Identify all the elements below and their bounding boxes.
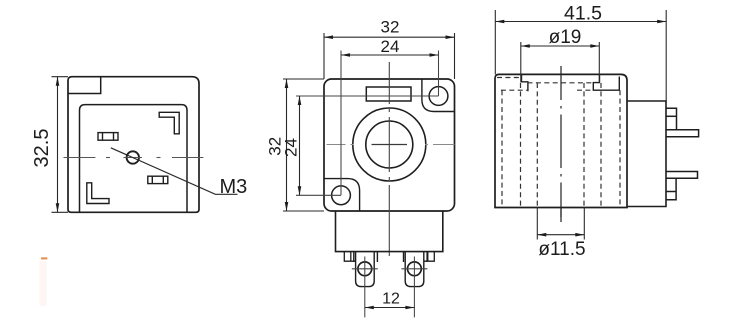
central gland outer circle [353, 108, 426, 181]
top dim extension lines [324, 33, 455, 79]
corner key mark top-right [159, 112, 179, 134]
right pin hole [408, 262, 422, 276]
svg-text:24: 24 [381, 37, 400, 56]
screw centerline horizontal top-right [296, 95, 439, 97]
svg-text:32.5: 32.5 [31, 129, 53, 168]
small tab left [344, 252, 355, 262]
inner face rounded rect [80, 105, 188, 213]
dimension line 24 top [341, 54, 439, 56]
latch notch step top-left [68, 77, 101, 94]
arrow 32 top left [324, 35, 333, 39]
arrow 41.5 right [657, 20, 666, 24]
screw centerline horizontal bottom-left [296, 194, 341, 196]
arrow 24 top left [341, 53, 350, 57]
lower slot [148, 176, 168, 183]
arrow 32.5 top [56, 77, 60, 86]
M3 screw hole circle [127, 151, 139, 163]
left pin shoulder [354, 252, 378, 262]
central gland inner circle [366, 121, 413, 168]
hidden line horizontal under top [497, 78, 594, 91]
dimension line 32 left [286, 79, 288, 211]
svg-text:ø19: ø19 [549, 27, 582, 48]
arrow 12 left [365, 306, 374, 310]
svg-text:24: 24 [282, 138, 301, 157]
svg-text:M3: M3 [220, 176, 248, 198]
upper terminal blade [666, 130, 699, 137]
crosshair inside gland [372, 144, 408, 146]
upper slot [98, 133, 118, 141]
leader line to M3 [111, 148, 238, 195]
dim o19 extension lines [521, 42, 600, 83]
arrow 32.5 bottom [56, 203, 60, 212]
center axis below body [560, 208, 562, 218]
screw hole top-right [429, 87, 448, 106]
arrow 32 left top [285, 79, 289, 88]
screw boss pad bottom-left [324, 179, 359, 211]
dimension line o19 [521, 45, 600, 47]
dimension line 12 [365, 307, 415, 309]
arrow 12 right [405, 306, 414, 310]
dim 41.5 extension lines [495, 10, 666, 101]
right pin shoulder [404, 252, 428, 262]
arrow o11.5 right [575, 233, 584, 237]
small tab right [424, 252, 435, 262]
dimension line 41.5 [495, 21, 666, 23]
dimension line 32.5 [57, 77, 59, 213]
base block [336, 211, 443, 252]
svg-text:41.5: 41.5 [564, 3, 602, 25]
svg-text:ø11.5: ø11.5 [538, 239, 585, 260]
left pin tab [356, 252, 375, 287]
lower terminal blade [666, 172, 698, 179]
screw centerline vertical top-right [438, 51, 440, 97]
left pin crosshair [352, 257, 378, 318]
arrow 24 left bottom [298, 186, 302, 195]
terminal block [627, 101, 666, 207]
arrow 32 top right [446, 35, 455, 39]
corner key mark bottom-left [87, 183, 109, 204]
dim o11.5 extension lines [537, 208, 584, 240]
vertical centerline middle view [388, 62, 390, 256]
faint smudge [40, 261, 47, 306]
lower terminal root [666, 178, 676, 200]
screw hole bottom-left [332, 186, 351, 205]
hidden vertical lines coil bore [502, 83, 620, 207]
arrow 24 top right [430, 53, 439, 57]
dimension line 24 left [299, 96, 301, 195]
left pin hole [358, 262, 372, 276]
arrow 32 left bottom [285, 202, 289, 211]
arrow 41.5 left [495, 20, 504, 24]
upper terminal root [666, 108, 677, 130]
screw boss pad top-right [422, 79, 454, 111]
side dim extension stubs [283, 79, 324, 211]
body outline left view [68, 77, 199, 213]
horizontal centerline left view [64, 157, 204, 159]
svg-text:12: 12 [382, 290, 400, 307]
arrow 24 left top [298, 96, 302, 105]
arrow o11.5 left [537, 233, 546, 237]
orange artifact mark [41, 257, 47, 259]
arrow o19 left [521, 44, 530, 48]
dimension 32.5 extension stubs [52, 77, 69, 213]
top notch right step [593, 74, 619, 90]
dimension line 32 top [324, 36, 455, 38]
body outline front view [324, 79, 455, 211]
top notch left step [522, 74, 528, 91]
screw centerline vertical bottom-left [340, 51, 342, 196]
svg-text:32: 32 [381, 17, 400, 36]
center axis dash-dot [560, 66, 562, 222]
right pin crosshair [401, 257, 427, 318]
coil body outline [495, 74, 627, 207]
dimension line o11.5 [537, 234, 584, 236]
cable entry slot top [366, 87, 411, 101]
arrow o19 right [590, 44, 599, 48]
right pin tab [405, 252, 424, 287]
horizontal centerline middle view [327, 144, 455, 146]
